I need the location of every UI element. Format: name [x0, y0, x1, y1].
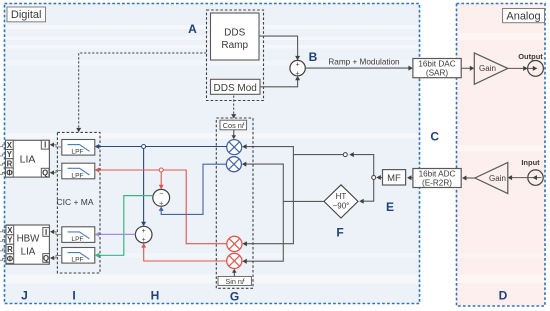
wire mixer M1 output to LPF1 (I direct): [95, 144, 227, 149]
svg-text:+: +: [142, 228, 146, 235]
junction MF output: [372, 176, 376, 180]
port Phi: [6, 168, 14, 178]
wire Sin ref to mixer M4: [232, 269, 237, 277]
svg-text:G: G: [230, 290, 239, 304]
svg-text:DDS Mod: DDS Mod: [214, 83, 257, 94]
text CIC + MA: [56, 197, 93, 207]
mixer M4 (sin, quadrature): [227, 253, 242, 268]
ref box Cos nf: [220, 120, 247, 130]
svg-text:Gain: Gain: [489, 174, 506, 183]
svg-text:HT: HT: [336, 192, 347, 201]
arrowhead into mixer M3: [242, 241, 247, 246]
ref box Sin nf: [218, 276, 251, 285]
wire LPF3 to HBW I: [50, 230, 62, 235]
wire adder to LPF3 (purple): [95, 232, 136, 237]
dashed wire DDS Mod to Cos ref: [231, 96, 236, 119]
svg-text:+: +: [296, 62, 300, 69]
svg-text:C: C: [430, 130, 439, 144]
svg-text:B: B: [309, 50, 318, 64]
svg-text:I: I: [72, 289, 75, 303]
wire HT output: [283, 200, 324, 202]
wire B to DAC: [305, 66, 413, 71]
wire quadrature vertical to mixers: [244, 164, 283, 261]
svg-text:Gain: Gain: [479, 64, 496, 73]
port Phi HBW: [6, 254, 14, 264]
svg-text:Output: Output: [518, 52, 543, 61]
svg-text:F: F: [336, 226, 343, 240]
svg-text:R: R: [7, 245, 13, 254]
digital dashed border: [5, 4, 420, 304]
svg-text:Φ: Φ: [7, 255, 14, 264]
wire subtractor to LPF4 (green): [95, 196, 153, 258]
wire direct signal vertical to mixers: [245, 147, 294, 244]
block HBW LIA: [6, 225, 49, 264]
label J: [21, 289, 28, 303]
svg-text:+: +: [296, 71, 300, 78]
svg-text:16bit DAC: 16bit DAC: [418, 60, 455, 69]
label D: [499, 289, 508, 303]
svg-text:Φ: Φ: [6, 169, 13, 178]
adder node: [135, 226, 152, 244]
svg-text:Ramp: Ramp: [221, 40, 248, 51]
label B: [309, 50, 318, 64]
wire LPF2 to LIA Q: [50, 170, 62, 175]
svg-text:HBW: HBW: [17, 234, 41, 245]
junction on M1 output: [142, 145, 146, 149]
svg-text:A: A: [188, 22, 197, 36]
port I LIA: [41, 140, 49, 149]
filter LPF3: [62, 227, 95, 243]
dashed control wire A to CIC box: [79, 53, 207, 130]
svg-text:LPF: LPF: [71, 149, 83, 156]
svg-text:16bit ADC: 16bit ADC: [419, 170, 456, 179]
port X HBW: [6, 225, 14, 235]
port stubs HBW left: [0, 230, 5, 260]
port stubs LIA left: [0, 145, 5, 174]
svg-text:LIA: LIA: [21, 247, 36, 258]
filter LPF4: [62, 248, 95, 264]
wire junction up to direct path: [349, 152, 373, 175]
svg-text:DDS: DDS: [224, 27, 245, 38]
svg-text:Q: Q: [42, 169, 48, 178]
filter LPF2: [62, 163, 95, 179]
block DDS Ramp: [211, 13, 260, 60]
subtractor node: [153, 189, 170, 207]
svg-text:Input: Input: [521, 158, 540, 167]
svg-text:Y: Y: [7, 236, 13, 245]
svg-text:I: I: [44, 141, 46, 150]
dashed box A (DDS section): [207, 10, 264, 101]
wire amp to ADC: [462, 176, 475, 181]
port R: [6, 159, 14, 169]
block 16bit DAC (SAR): [413, 59, 461, 78]
block HT -90 Hilbert transform: [324, 185, 358, 218]
mixer M2 (cos, quadrature): [226, 157, 241, 172]
label A: [188, 22, 197, 36]
svg-text:Ramp + Modulation: Ramp + Modulation: [328, 57, 400, 66]
svg-text:−: −: [159, 191, 163, 198]
port I HBW: [43, 228, 50, 237]
wire DDS Mod to summer B: [260, 76, 300, 87]
dashed box G (mixers): [216, 118, 253, 288]
svg-text:−90°: −90°: [333, 202, 350, 211]
svg-text:R: R: [7, 159, 13, 168]
svg-text:Y: Y: [7, 150, 13, 159]
mixer M3 (sin, direct): [227, 236, 242, 251]
node Output: [518, 52, 543, 76]
svg-text:E: E: [386, 200, 394, 214]
label H: [151, 289, 160, 303]
block 16bit ADC (E-R2R): [413, 169, 461, 188]
wire LPF1 to LIA I: [50, 143, 62, 148]
junction direct path: [343, 153, 347, 157]
Analog label box: [503, 9, 545, 23]
svg-text:+: +: [142, 237, 146, 244]
analog dashed border: [457, 4, 546, 307]
block DDS Mod: [211, 79, 261, 94]
svg-text:X: X: [7, 226, 13, 235]
svg-text:X: X: [7, 141, 13, 150]
wire junction down to HT: [359, 180, 374, 204]
arrowhead into mixer M1: [242, 144, 247, 149]
mixer M1 (cos, direct): [227, 140, 242, 155]
svg-text:(SAR): (SAR): [426, 69, 449, 78]
wire Input to input amp: [508, 175, 542, 180]
wire mixer M3 output to LPF2 (Q direct): [95, 168, 227, 244]
port R HBW: [6, 244, 14, 254]
wire ADC to MF: [407, 175, 413, 180]
port Q HBW: [43, 254, 50, 263]
wire LPF4 to HBW Q: [50, 256, 62, 261]
svg-text:D: D: [499, 289, 508, 303]
label E: [386, 200, 394, 214]
svg-text:Sin nf: Sin nf: [225, 277, 245, 286]
label C: [430, 130, 439, 144]
wire Cos ref to mixer M1: [232, 130, 237, 139]
svg-text:LPF: LPF: [71, 257, 83, 264]
svg-text:(E-R2R): (E-R2R): [422, 179, 452, 188]
svg-text:LPF: LPF: [71, 236, 83, 243]
block MF: [383, 170, 406, 185]
port X: [6, 140, 14, 150]
junction on M3 output: [159, 168, 163, 172]
op-amp input Gain: [475, 163, 508, 194]
block LIA: [6, 140, 50, 177]
svg-text:CIC + MA: CIC + MA: [56, 197, 93, 207]
Digital label box: [7, 7, 46, 22]
port Y: [6, 150, 14, 160]
net label Ramp + Modulation: [328, 57, 400, 66]
wire DAC to output amp: [461, 66, 474, 71]
wire branch to adder top: [141, 149, 146, 227]
wire branch to subtractor minus: [159, 172, 164, 189]
svg-text:Analog: Analog: [506, 11, 540, 23]
analog region background: [456, 3, 545, 306]
label G: [230, 290, 239, 304]
svg-text:H: H: [151, 289, 160, 303]
node Input: [521, 158, 543, 185]
svg-text:LIA: LIA: [20, 154, 36, 166]
wire MF to junction: [376, 175, 382, 180]
arrowhead into CIC box top: [76, 128, 81, 132]
wire DDS Ramp to summer B: [259, 36, 300, 60]
wire junction to direct vertical: [293, 154, 343, 156]
svg-text:+: +: [159, 201, 163, 208]
port Y HBW: [6, 235, 14, 245]
label I: [72, 289, 75, 303]
op-amp output Gain: [474, 53, 508, 84]
svg-text:MF: MF: [387, 173, 401, 184]
svg-text:Digital: Digital: [11, 9, 42, 21]
svg-text:Cos nf: Cos nf: [223, 121, 245, 130]
summer B: [290, 60, 305, 77]
port Q LIA: [41, 168, 49, 177]
svg-text:Q: Q: [43, 254, 49, 263]
dashed box I (CIC + MA): [57, 132, 100, 273]
digital region background: [4, 3, 420, 304]
svg-text:LPF: LPF: [71, 172, 83, 179]
wire mixer M4 output to adder bottom: [141, 243, 227, 261]
filter LPF1: [62, 140, 95, 156]
svg-text:I: I: [45, 228, 47, 237]
arrowhead into mixer M2: [242, 162, 247, 167]
wire amp to Output node: [508, 66, 538, 71]
label F: [336, 226, 343, 240]
arrowhead into mixer M4: [242, 259, 247, 264]
wire mixer M2 output to subtractor plus: [159, 164, 227, 214]
svg-text:J: J: [21, 289, 28, 303]
